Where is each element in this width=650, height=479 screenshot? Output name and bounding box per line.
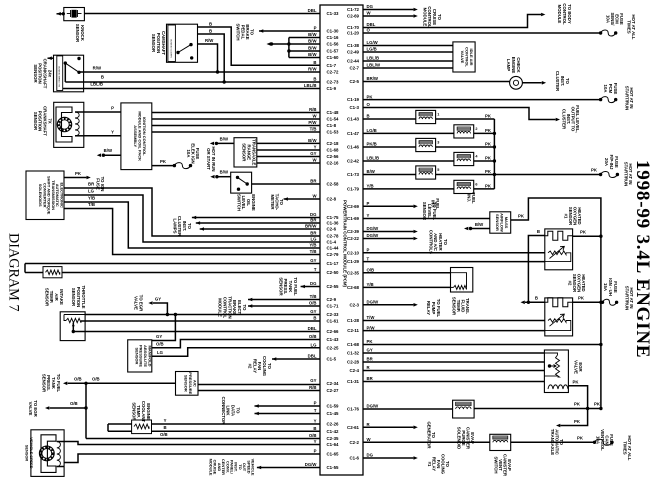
svg-text:C2-25: C2-25 bbox=[327, 345, 340, 350]
svg-text:C1-17: C1-17 bbox=[327, 261, 340, 266]
svg-text:B/W: B/W bbox=[308, 32, 317, 37]
svg-text:MODULE: MODULE bbox=[422, 8, 427, 27]
svg-text:PK: PK bbox=[485, 169, 492, 174]
svg-text:B/W: B/W bbox=[308, 46, 317, 51]
svg-text:O/B: O/B bbox=[309, 433, 317, 438]
svg-text:P: P bbox=[367, 248, 370, 253]
svg-text:T/B: T/B bbox=[310, 294, 317, 299]
svg-text:P/W: P/W bbox=[308, 120, 317, 125]
svg-text:PK: PK bbox=[485, 183, 492, 188]
svg-text:C1-45: C1-45 bbox=[327, 411, 340, 416]
svg-text:1998-99 3.4L ENGINE: 1998-99 3.4L ENGINE bbox=[632, 160, 650, 358]
svg-text:C1-44: C1-44 bbox=[327, 246, 340, 251]
svg-text:#1: #1 bbox=[564, 214, 569, 219]
svg-text:#2: #2 bbox=[568, 281, 573, 286]
svg-text:C1-28: C1-28 bbox=[347, 318, 360, 323]
svg-text:C2-42: C2-42 bbox=[347, 159, 360, 164]
svg-text:B: B bbox=[535, 296, 538, 301]
svg-text:C2-22: C2-22 bbox=[347, 236, 360, 241]
svg-text:C1-76: C1-76 bbox=[347, 407, 360, 412]
svg-text:P: P bbox=[111, 106, 114, 111]
svg-text:Y/B: Y/B bbox=[367, 184, 374, 189]
svg-text:B: B bbox=[101, 75, 104, 80]
svg-text:O/B: O/B bbox=[92, 377, 100, 382]
svg-text:B/W: B/W bbox=[308, 52, 317, 57]
svg-text:T/W: T/W bbox=[367, 315, 376, 320]
svg-text:C2-49: C2-49 bbox=[347, 50, 360, 55]
svg-text:PK: PK bbox=[485, 156, 492, 161]
svg-text:C1-71: C1-71 bbox=[327, 304, 340, 309]
svg-text:C1-48: C1-48 bbox=[327, 110, 340, 115]
svg-text:B: B bbox=[209, 29, 212, 34]
svg-text:PK: PK bbox=[591, 168, 598, 173]
svg-text:GY: GY bbox=[156, 334, 162, 339]
svg-text:C1-19: C1-19 bbox=[347, 97, 360, 102]
svg-text:VALVE: VALVE bbox=[574, 360, 579, 374]
svg-text:C1-68: C1-68 bbox=[347, 342, 360, 347]
svg-text:C2-50: C2-50 bbox=[327, 270, 340, 275]
svg-text:DG/W: DG/W bbox=[305, 462, 318, 467]
svg-text:SENSOR: SENSOR bbox=[495, 214, 500, 231]
svg-text:C1-4: C1-4 bbox=[327, 240, 337, 245]
svg-text:SENSOR: SENSOR bbox=[41, 374, 46, 393]
svg-text:C1-54: C1-54 bbox=[327, 117, 340, 122]
svg-text:B/W: B/W bbox=[367, 169, 376, 174]
svg-text:B/W: B/W bbox=[308, 138, 317, 143]
svg-text:10A: 10A bbox=[186, 150, 191, 158]
svg-text:SENSOR: SENSOR bbox=[184, 375, 189, 392]
svg-text:B: B bbox=[313, 316, 316, 321]
svg-text:O/B: O/B bbox=[70, 401, 78, 406]
svg-text:15A: 15A bbox=[603, 283, 608, 291]
svg-text:C2-39: C2-39 bbox=[347, 229, 360, 234]
svg-text:C1-61: C1-61 bbox=[327, 319, 340, 324]
svg-text:10A: 10A bbox=[596, 436, 601, 444]
svg-text:PK: PK bbox=[574, 402, 581, 407]
svg-text:C2-61: C2-61 bbox=[347, 425, 360, 430]
svg-text:LBL/B: LBL/B bbox=[367, 56, 380, 61]
svg-text:GY: GY bbox=[310, 258, 316, 263]
svg-text:ASSEMBLY: ASSEMBLY bbox=[133, 125, 138, 147]
svg-text:START/RUN: START/RUN bbox=[623, 162, 628, 187]
svg-text:B/W: B/W bbox=[104, 148, 113, 153]
svg-text:C1-56: C1-56 bbox=[327, 42, 340, 47]
svg-text:C1-36: C1-36 bbox=[327, 221, 340, 226]
svg-text:C2-55: C2-55 bbox=[327, 284, 340, 289]
svg-text:SOLENOID: SOLENOID bbox=[457, 427, 462, 449]
svg-text:RELAY: RELAY bbox=[426, 301, 431, 315]
svg-text:GY: GY bbox=[310, 151, 316, 156]
svg-text:C1-53: C1-53 bbox=[327, 130, 340, 135]
svg-text:C1-33: C1-33 bbox=[327, 11, 340, 16]
svg-text:BR: BR bbox=[367, 357, 374, 362]
svg-text:DG/W: DG/W bbox=[367, 404, 380, 409]
svg-text:C1-70: C1-70 bbox=[347, 25, 360, 30]
svg-text:BR: BR bbox=[310, 231, 317, 236]
svg-text:O/B: O/B bbox=[160, 432, 168, 437]
svg-text:LAMP: LAMP bbox=[506, 59, 511, 71]
svg-text:BR: BR bbox=[310, 218, 317, 223]
svg-text:B: B bbox=[537, 229, 540, 234]
svg-text:DIAGRAM 7: DIAGRAM 7 bbox=[6, 233, 22, 311]
svg-text:DBL: DBL bbox=[308, 354, 317, 359]
svg-text:SWITCH: SWITCH bbox=[236, 24, 241, 41]
svg-text:C2-6: C2-6 bbox=[327, 227, 337, 232]
svg-text:10A: 10A bbox=[606, 15, 611, 23]
svg-text:LG/W: LG/W bbox=[367, 40, 379, 45]
svg-text:C1-75: C1-75 bbox=[327, 215, 340, 220]
svg-text:C2-3: C2-3 bbox=[349, 302, 359, 307]
svg-text:TIMES: TIMES bbox=[626, 20, 631, 33]
svg-text:CAM POS SENSOR: CAM POS SENSOR bbox=[170, 39, 173, 58]
svg-text:C1-60: C1-60 bbox=[327, 55, 340, 60]
svg-text:CONNECTOR: CONNECTOR bbox=[221, 397, 226, 426]
svg-text:C1-3: C1-3 bbox=[349, 105, 359, 110]
svg-text:C2-11: C2-11 bbox=[347, 328, 359, 333]
svg-text:C1-7: C1-7 bbox=[327, 63, 337, 68]
svg-text:C2-27: C2-27 bbox=[327, 388, 340, 393]
svg-text:C1-29: C1-29 bbox=[347, 259, 360, 264]
svg-text:PK: PK bbox=[573, 379, 580, 384]
svg-text:C2-66: C2-66 bbox=[327, 329, 340, 334]
svg-text:SENSOR: SENSOR bbox=[452, 297, 457, 316]
svg-text:O/B: O/B bbox=[367, 267, 375, 272]
svg-text:BR: BR bbox=[88, 182, 95, 187]
svg-text:START/RUN: START/RUN bbox=[624, 286, 629, 311]
svg-text:C2-2: C2-2 bbox=[349, 440, 359, 445]
svg-text:MODULE: MODULE bbox=[557, 5, 562, 24]
svg-text:C1-9: C1-9 bbox=[327, 86, 337, 91]
svg-text:C2-35: C2-35 bbox=[347, 270, 360, 275]
svg-text:C2-56: C2-56 bbox=[327, 154, 340, 159]
svg-text:DG/W: DG/W bbox=[367, 233, 380, 238]
svg-text:SENSOR: SENSOR bbox=[44, 288, 49, 307]
svg-text:R/W: R/W bbox=[205, 38, 214, 43]
svg-text:SENSOR: SENSOR bbox=[33, 64, 38, 83]
svg-text:C2-68: C2-68 bbox=[347, 285, 360, 290]
svg-text:#1: #1 bbox=[427, 462, 432, 467]
svg-text:R/W: R/W bbox=[93, 66, 102, 71]
svg-text:C2-10: C2-10 bbox=[347, 250, 360, 255]
svg-text:C1-57: C1-57 bbox=[327, 49, 340, 54]
svg-text:C1-69: C1-69 bbox=[347, 216, 360, 221]
svg-text:C2-69: C2-69 bbox=[347, 204, 360, 209]
svg-text:SENSOR: SENSOR bbox=[71, 288, 76, 307]
svg-text:LAMPS: LAMPS bbox=[172, 218, 177, 233]
svg-text:P/W: P/W bbox=[367, 325, 376, 330]
svg-text:C2-78: C2-78 bbox=[327, 234, 340, 239]
svg-text:MODULE: MODULE bbox=[209, 459, 214, 476]
svg-text:DBL: DBL bbox=[308, 8, 317, 13]
svg-text:PK: PK bbox=[485, 114, 492, 119]
svg-text:C2-18: C2-18 bbox=[327, 141, 340, 146]
svg-text:OR START: OR START bbox=[206, 148, 211, 170]
svg-text:PK: PK bbox=[518, 214, 525, 219]
svg-text:SENSOR: SENSOR bbox=[25, 445, 30, 462]
svg-text:PK: PK bbox=[160, 159, 167, 164]
svg-text:#2: #2 bbox=[247, 364, 252, 369]
svg-text:C2-73: C2-73 bbox=[327, 80, 340, 85]
svg-text:LBL/W: LBL/W bbox=[367, 63, 382, 68]
svg-text:C2-26: C2-26 bbox=[327, 422, 340, 427]
svg-text:LBL/B: LBL/B bbox=[367, 156, 380, 161]
svg-text:PK: PK bbox=[580, 230, 587, 235]
svg-text:LG: LG bbox=[157, 350, 164, 355]
svg-text:PK/B: PK/B bbox=[367, 142, 377, 147]
svg-text:PK: PK bbox=[594, 402, 601, 407]
svg-text:Y/B: Y/B bbox=[309, 243, 316, 248]
svg-text:BR: BR bbox=[367, 376, 374, 381]
svg-text:Y: Y bbox=[367, 213, 370, 218]
svg-text:C1-47: C1-47 bbox=[347, 131, 360, 136]
svg-text:B/W: B/W bbox=[220, 170, 229, 175]
svg-text:O/B: O/B bbox=[74, 377, 82, 382]
svg-text:DG: DG bbox=[367, 4, 374, 9]
svg-text:DG/W: DG/W bbox=[367, 226, 380, 231]
svg-text:BR: BR bbox=[310, 179, 317, 184]
svg-text:MODULE: MODULE bbox=[218, 298, 223, 317]
svg-text:C1-73: C1-73 bbox=[347, 172, 360, 177]
svg-text:P: P bbox=[314, 401, 317, 406]
svg-text:C1-55: C1-55 bbox=[327, 465, 340, 470]
svg-text:C2-35: C2-35 bbox=[327, 436, 340, 441]
svg-text:C1-30: C1-30 bbox=[327, 29, 340, 34]
svg-text:PK: PK bbox=[485, 128, 492, 133]
svg-text:B: B bbox=[313, 77, 316, 82]
svg-text:Y: Y bbox=[314, 419, 317, 424]
svg-text:C1-5: C1-5 bbox=[327, 357, 337, 362]
svg-text:C2-58: C2-58 bbox=[327, 182, 340, 187]
svg-text:C2-44: C2-44 bbox=[347, 59, 360, 64]
svg-text:6: 6 bbox=[475, 182, 477, 186]
svg-text:T: T bbox=[314, 267, 317, 272]
svg-text:PK: PK bbox=[485, 142, 492, 147]
svg-text:SOLENOIDS: SOLENOIDS bbox=[38, 184, 43, 207]
svg-text:B/W: B/W bbox=[475, 222, 484, 227]
svg-text:DBL: DBL bbox=[367, 22, 376, 27]
svg-text:GY: GY bbox=[367, 348, 373, 353]
svg-text:SENSOR: SENSOR bbox=[75, 24, 80, 43]
svg-text:T/B: T/B bbox=[310, 127, 317, 132]
svg-text:PK: PK bbox=[75, 171, 82, 176]
svg-text:C2-28: C2-28 bbox=[347, 360, 360, 365]
svg-text:B: B bbox=[163, 425, 166, 430]
svg-text:T/B: T/B bbox=[88, 202, 95, 207]
svg-text:C2-16: C2-16 bbox=[327, 161, 340, 166]
svg-text:VALVE: VALVE bbox=[28, 402, 33, 416]
svg-text:VALVE: VALVE bbox=[460, 51, 465, 64]
svg-text:C1-43: C1-43 bbox=[327, 337, 340, 342]
svg-text:C1-43: C1-43 bbox=[347, 117, 360, 122]
svg-text:R/W: R/W bbox=[308, 67, 317, 72]
svg-text:C1-59: C1-59 bbox=[327, 404, 340, 409]
svg-text:TIMES: TIMES bbox=[622, 441, 627, 454]
svg-text:O/B: O/B bbox=[309, 301, 317, 306]
svg-text:10A: 10A bbox=[603, 85, 608, 93]
svg-text:PK: PK bbox=[578, 296, 585, 301]
svg-text:LG/B: LG/B bbox=[367, 47, 377, 52]
svg-text:LG: LG bbox=[311, 237, 318, 242]
svg-text:O/B: O/B bbox=[309, 334, 317, 339]
svg-text:DBL: DBL bbox=[308, 326, 317, 331]
svg-text:VALVE: VALVE bbox=[134, 296, 139, 310]
svg-text:B: B bbox=[313, 60, 316, 65]
svg-text:B/W: B/W bbox=[308, 39, 317, 44]
svg-text:DG/W: DG/W bbox=[367, 300, 380, 305]
svg-text:C2-7: C2-7 bbox=[349, 66, 359, 71]
svg-text:T: T bbox=[314, 408, 317, 413]
svg-text:C2-9: C2-9 bbox=[327, 297, 337, 302]
svg-text:Y: Y bbox=[164, 418, 167, 423]
svg-text:SENSOR: SENSOR bbox=[151, 34, 156, 53]
svg-text:Y: Y bbox=[314, 439, 317, 444]
svg-text:O/B: O/B bbox=[156, 341, 164, 346]
svg-text:B: B bbox=[209, 22, 212, 27]
svg-text:C2-5: C2-5 bbox=[349, 79, 359, 84]
svg-text:INJ.: INJ. bbox=[467, 194, 472, 202]
svg-text:C2-72: C2-72 bbox=[327, 70, 340, 75]
svg-text:DG: DG bbox=[367, 453, 374, 458]
svg-text:METER: METER bbox=[270, 194, 275, 210]
svg-text:PK: PK bbox=[577, 436, 584, 441]
svg-text:C2-79: C2-79 bbox=[327, 252, 340, 257]
svg-text:PK: PK bbox=[574, 419, 581, 424]
svg-text:P: P bbox=[367, 201, 370, 206]
svg-text:DG: DG bbox=[310, 281, 317, 286]
svg-text:C1-20: C1-20 bbox=[347, 31, 360, 36]
svg-text:Y/B: Y/B bbox=[367, 282, 374, 287]
svg-text:C2-8: C2-8 bbox=[327, 197, 337, 202]
svg-text:24X CRANK SENSOR: 24X CRANK SENSOR bbox=[58, 66, 61, 87]
svg-text:SWITCH: SWITCH bbox=[236, 194, 241, 211]
svg-text:C1-38: C1-38 bbox=[347, 43, 360, 48]
svg-text:T/B: T/B bbox=[310, 249, 317, 254]
svg-text:C1-72: C1-72 bbox=[347, 7, 360, 12]
svg-text:P: P bbox=[314, 26, 317, 31]
svg-text:Y: Y bbox=[314, 145, 317, 150]
svg-text:C1-68: C1-68 bbox=[327, 148, 340, 153]
svg-text:C1-6: C1-6 bbox=[349, 456, 359, 461]
svg-text:BR/W: BR/W bbox=[305, 224, 317, 229]
svg-text:R/B: R/B bbox=[309, 385, 316, 390]
svg-text:T: T bbox=[367, 256, 370, 261]
svg-text:GENERATOR: GENERATOR bbox=[426, 421, 431, 449]
svg-text:C1-16: C1-16 bbox=[327, 35, 340, 40]
svg-text:5: 5 bbox=[437, 168, 439, 172]
svg-text:C1-65: C1-65 bbox=[327, 452, 340, 457]
svg-text:SENSOR: SENSOR bbox=[33, 112, 38, 131]
svg-text:C1-8: C1-8 bbox=[327, 123, 337, 128]
svg-text:CONTROLS: CONTROLS bbox=[428, 230, 433, 254]
svg-text:Y: Y bbox=[111, 129, 114, 134]
svg-text:SENSOR: SENSOR bbox=[134, 348, 139, 365]
svg-text:CLUSTER: CLUSTER bbox=[555, 71, 560, 92]
svg-text:C2-4: C2-4 bbox=[349, 368, 359, 373]
svg-text:3: 3 bbox=[437, 141, 439, 145]
svg-text:CLUSTER: CLUSTER bbox=[562, 109, 567, 130]
svg-text:B: B bbox=[367, 114, 370, 119]
svg-text:P: P bbox=[314, 449, 317, 454]
svg-text:SENSOR: SENSOR bbox=[131, 402, 136, 421]
svg-text:C2-33: C2-33 bbox=[327, 312, 340, 317]
svg-text:C1-64: C1-64 bbox=[327, 442, 340, 447]
svg-text:GY: GY bbox=[310, 378, 316, 383]
svg-text:C1-46: C1-46 bbox=[347, 145, 360, 150]
svg-text:B/W: B/W bbox=[220, 136, 229, 141]
svg-text:PK: PK bbox=[367, 339, 374, 344]
svg-text:C1-32: C1-32 bbox=[347, 351, 360, 356]
svg-text:LBL/B: LBL/B bbox=[304, 83, 317, 88]
svg-text:GY: GY bbox=[155, 297, 161, 302]
svg-text:LG: LG bbox=[311, 342, 318, 347]
svg-text:R/B: R/B bbox=[309, 107, 316, 112]
svg-text:SENSOR: SENSOR bbox=[278, 277, 283, 296]
svg-text:C1-79: C1-79 bbox=[347, 187, 360, 192]
svg-text:BR/W: BR/W bbox=[367, 76, 379, 81]
svg-text:GY: GY bbox=[310, 309, 316, 314]
svg-text:B: B bbox=[313, 426, 316, 431]
svg-text:C1-31: C1-31 bbox=[347, 379, 360, 384]
svg-text:1: 1 bbox=[437, 113, 439, 117]
svg-text:Y/B: Y/B bbox=[88, 196, 95, 201]
svg-text:LG: LG bbox=[88, 189, 95, 194]
svg-text:2: 2 bbox=[475, 127, 477, 131]
svg-text:SENSOR: SENSOR bbox=[242, 143, 247, 162]
svg-text:20A: 20A bbox=[604, 158, 609, 166]
svg-text:START/RUN: START/RUN bbox=[624, 86, 629, 111]
svg-text:DG: DG bbox=[310, 212, 317, 217]
svg-text:C1-42: C1-42 bbox=[327, 429, 340, 434]
svg-text:SWITCH: SWITCH bbox=[494, 457, 499, 474]
svg-text:C2-69: C2-69 bbox=[347, 14, 360, 19]
svg-text:LG/B: LG/B bbox=[367, 128, 377, 133]
svg-text:PK: PK bbox=[367, 94, 374, 99]
svg-text:LBL/B: LBL/B bbox=[90, 82, 103, 87]
svg-text:C2-34: C2-34 bbox=[327, 381, 340, 386]
